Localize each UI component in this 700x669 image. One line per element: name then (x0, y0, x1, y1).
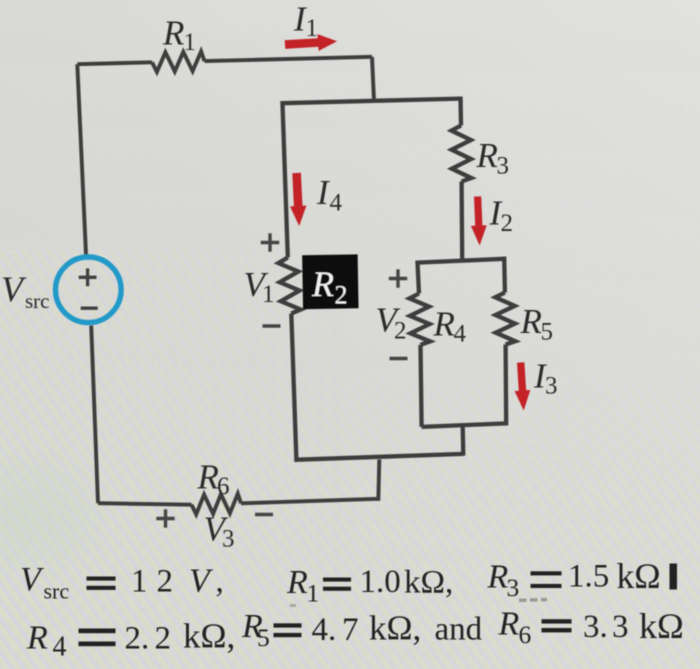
voltage source Vsrc circle (56, 257, 122, 323)
wire R3 to inner box (459, 182, 464, 261)
wire inner box right lower (503, 345, 508, 426)
resistor R3 (451, 126, 471, 182)
Vsrc plus sign (79, 268, 97, 286)
svg-text:R: R (311, 264, 334, 304)
wire left side upper (77, 64, 86, 254)
wire inner box right upper (502, 257, 507, 293)
wire middle box bottom edge (294, 454, 463, 460)
wire inner box to middle box bottom (461, 427, 466, 456)
svg-text:1: 1 (307, 579, 320, 608)
svg-text:kΩ,: kΩ, (404, 565, 453, 601)
svg-text:3: 3 (222, 526, 235, 553)
plus sign V2 (389, 269, 407, 287)
svg-text:R: R (162, 14, 184, 53)
svg-text:R: R (433, 305, 455, 344)
wire middle box left lower (291, 314, 296, 460)
resistor R4 (409, 294, 430, 345)
svg-text:R: R (26, 620, 48, 657)
resistor R5 (495, 293, 515, 345)
svg-text:4.: 4. (312, 612, 337, 648)
dash under R1 (290, 604, 296, 607)
svg-text:kΩ: kΩ (639, 606, 684, 646)
plus sign V3 (156, 509, 174, 527)
svg-text:2: 2 (335, 281, 348, 310)
current arrow I2 (471, 196, 487, 245)
wire bottom riser (378, 460, 379, 501)
Vsrc minus sign (81, 307, 98, 310)
svg-text:1.5: 1.5 (568, 559, 609, 595)
svg-text:1: 1 (131, 564, 148, 600)
svg-text:5: 5 (541, 319, 554, 346)
svg-text:6: 6 (217, 473, 230, 500)
svg-text:R: R (286, 564, 308, 601)
wire inner box left upper (417, 261, 419, 294)
svg-text:2: 2 (501, 210, 514, 237)
resistor R2 (278, 258, 300, 314)
svg-text:2: 2 (157, 564, 174, 600)
wire inner box top edge (417, 259, 504, 263)
wire R1 to top-right corner (205, 57, 373, 61)
svg-text:2: 2 (394, 318, 407, 345)
minus sign V3 (255, 513, 273, 516)
resistor R1 (152, 52, 205, 72)
current arrow I3 (515, 362, 531, 410)
spellcheck dashes under R3 (519, 598, 547, 602)
svg-text:6: 6 (519, 620, 532, 649)
wire middle box right upper (458, 97, 463, 126)
svg-text:kΩ,: kΩ, (369, 609, 421, 648)
svg-text:and: and (435, 612, 483, 648)
wire R6 to riser (241, 499, 378, 504)
svg-text:R: R (520, 302, 542, 341)
wire bottom-left to R6 (98, 503, 192, 505)
svg-text:4: 4 (330, 190, 343, 217)
current arrow I1 (285, 34, 337, 51)
svg-text:2.: 2. (125, 621, 150, 657)
svg-text:5: 5 (257, 623, 270, 652)
svg-text:1: 1 (262, 281, 275, 308)
equation line 2: R4 = 2.2 kOhm, R5 = 4.7 kOhm, and R6 = 3.3 kOhm (26, 606, 684, 663)
equation line 1: Vsrc = 12 V, R1 = 1.0 kOhm, R3 = 1.5 kOhm (20, 556, 677, 608)
svg-text:7: 7 (342, 612, 359, 648)
current arrow I4 (290, 173, 306, 226)
wire inner box bottom edge (422, 423, 507, 427)
svg-text:R: R (487, 559, 509, 596)
svg-text:,: , (216, 564, 224, 600)
wire inner box left lower (421, 345, 422, 427)
wire top-left to R1 (77, 62, 152, 64)
svg-text:3: 3 (612, 609, 629, 645)
wire left side lower (91, 326, 98, 504)
svg-text:kΩ,: kΩ, (183, 617, 235, 656)
svg-text:3: 3 (497, 153, 510, 180)
resistor R6 (192, 494, 242, 515)
svg-text:3.: 3. (583, 609, 608, 645)
plus sign V1 (261, 233, 279, 251)
svg-text:R: R (498, 606, 520, 643)
wire middle box top edge (282, 99, 460, 104)
svg-text:2: 2 (155, 621, 172, 657)
svg-text:3: 3 (507, 573, 520, 602)
svg-text:src: src (44, 579, 70, 604)
svg-text:R: R (197, 458, 219, 497)
svg-text:4: 4 (454, 321, 467, 348)
svg-text:1: 1 (306, 15, 319, 42)
svg-text:1.0: 1.0 (360, 564, 401, 600)
minus sign V1 (263, 324, 281, 327)
R2 black highlight box (302, 254, 358, 309)
minus sign V2 (390, 357, 408, 360)
svg-text:src: src (25, 289, 50, 313)
wire top riser (372, 57, 374, 101)
svg-text:kΩ: kΩ (617, 556, 661, 596)
wire middle box left upper (282, 101, 287, 258)
svg-text:3: 3 (545, 373, 558, 400)
svg-text:R: R (476, 136, 498, 175)
svg-text:4: 4 (53, 632, 67, 663)
svg-text:1: 1 (184, 29, 197, 56)
